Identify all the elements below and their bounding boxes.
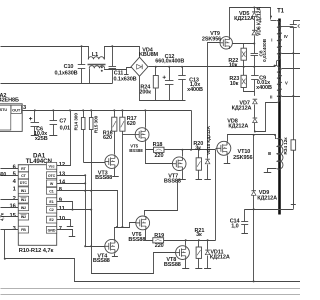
core L1 — [88, 64, 106, 66]
wire VD7-VD8 link — [254, 105, 256, 118]
resistor R24 — [153, 76, 158, 89]
wire C14/VD9 net — [245, 209, 294, 211]
terminal AC2 stub — [124, 74, 129, 76]
svg-text:II: II — [270, 94, 272, 99]
wire VT10 gate column — [215, 150, 217, 241]
node R15 rail tap — [90, 109, 92, 111]
svg-text:E1: E1 — [49, 200, 53, 204]
pin box E1 pin 9 (right) — [46, 198, 56, 205]
ground pin 7 — [69, 236, 76, 238]
wire winding III top lead — [276, 135, 277, 139]
wire C15 top to edge — [294, 20, 301, 22]
svg-text:4,7к: 4,7к — [0, 212, 4, 221]
node VT8 drain tap — [185, 239, 187, 241]
capacitor C15 (output) — [293, 20, 295, 24]
wire +9V rail — [23, 110, 192, 112]
svg-text:660,0х400В: 660,0х400В — [155, 59, 184, 65]
node C11 top tap — [111, 45, 113, 47]
wire VT4 gate net — [86, 246, 105, 248]
ground C7 — [49, 135, 57, 137]
wire pin 3 net down — [4, 230, 6, 259]
wire R14 top lead — [83, 111, 85, 118]
pin box DTC pin 4 (left) — [18, 179, 28, 186]
junction bar C12 minus — [166, 100, 172, 102]
svg-text:R18: R18 — [153, 142, 163, 148]
svg-text:16: 16 — [10, 204, 17, 210]
wire R22 bottom lead — [243, 61, 245, 67]
wire R16 top lead — [114, 111, 116, 118]
wire pin 13 OTC net — [57, 175, 86, 177]
wire pin 7 GND stub — [57, 230, 73, 237]
wire VT6 drain to VT7 source — [145, 180, 178, 216]
svg-text:DTC: DTC — [20, 181, 28, 185]
svg-text:14: 14 — [59, 180, 66, 186]
svg-text:GND: GND — [48, 228, 56, 232]
wire VD8 to winding II bottom — [255, 103, 278, 132]
svg-text:IN1: IN1 — [21, 189, 26, 193]
svg-text:15: 15 — [10, 213, 17, 219]
svg-text:C1: C1 — [49, 189, 53, 193]
wire VD9 branch down — [253, 135, 255, 191]
transistor VT5 — [135, 128, 149, 142]
transistor VT4 — [105, 239, 119, 253]
svg-text:R10-R12 4,7к: R10-R12 4,7к — [19, 248, 54, 254]
capacitor C14 — [244, 209, 246, 221]
junction bar C13 minus — [179, 100, 185, 102]
ground VT3 source — [112, 176, 119, 178]
wire VD5-VD6 link — [254, 17, 256, 31]
wire VD11 bottom lead — [207, 256, 209, 269]
transistor VT3 — [105, 155, 119, 169]
node winding I top — [270, 16, 272, 18]
ground VT10 source — [224, 163, 231, 165]
node C10 top tap — [81, 45, 83, 47]
wire R20 bottom lead — [198, 171, 200, 180]
node VT5 drain rail tap — [144, 109, 146, 111]
svg-text:C7: C7 — [59, 119, 66, 125]
ground R20 — [196, 179, 203, 181]
svg-text:13: 13 — [59, 171, 66, 177]
node secondary return IV — [292, 52, 294, 54]
wire VT10 source — [227, 156, 229, 164]
wire VT3 source — [114, 169, 116, 177]
svg-text:КД212А: КД212А — [210, 254, 230, 260]
regulator DA2 input pin box — [0, 105, 11, 130]
pin box IN2 pin 15 (left) — [18, 213, 28, 220]
svg-text:C2: C2 — [49, 208, 53, 212]
wire R15 bottom lead to VT4 gate net — [91, 130, 93, 247]
wire R17 bottom lead / VT6 gate net — [122, 132, 124, 228]
pin box RT pin 6 (left) — [18, 165, 28, 172]
wire R21 top lead — [198, 241, 200, 248]
pin box C1 pin 8 (right) — [46, 187, 56, 194]
resistor R14 — [81, 118, 85, 130]
svg-text:КД212А: КД212А — [234, 16, 254, 22]
capacitor C11 — [112, 46, 114, 66]
ground pin 10 — [67, 226, 74, 228]
wire R23 bottom lead — [244, 88, 255, 92]
wire bridge AC2 stub down — [126, 70, 128, 75]
node R16 rail tap — [113, 109, 115, 111]
wire bus stub to winding junction — [275, 61, 277, 66]
resistor R23 — [241, 75, 246, 87]
node R22 bus tap — [243, 66, 245, 68]
node pin9 join — [72, 209, 74, 211]
svg-text:Vcc: Vcc — [48, 164, 54, 168]
svg-text:2SK956: 2SK956 — [233, 155, 252, 161]
winding V of T1 — [279, 69, 282, 96]
wire R10-R12 feedback row — [5, 259, 301, 282]
node VD8 junction — [254, 131, 256, 133]
wire R23 top lead — [243, 67, 245, 76]
svg-text:2: 2 — [13, 196, 16, 202]
frame line 2 — [1, 294, 301, 296]
pin box W pin 14 (right) — [46, 180, 56, 187]
svg-text:х400В: х400В — [256, 85, 272, 91]
frame line 1 — [1, 288, 301, 290]
wire R19 to VT10 gate net — [164, 240, 216, 242]
wire VT5 drain to rail — [145, 111, 147, 128]
regulator DA2 body — [0, 104, 22, 132]
wire pin 15 IN2 to edge — [1, 216, 19, 218]
diode VD8 — [253, 119, 258, 123]
capacitor C13 — [182, 67, 184, 76]
wire rail drop to gate node — [191, 111, 193, 150]
svg-text:R34 12к: R34 12к — [283, 137, 289, 155]
node VT6 gate column join — [121, 226, 123, 228]
ground C14 — [241, 233, 248, 235]
wire pin 11 C2 net — [57, 209, 92, 211]
svg-text:КД212А: КД212А — [232, 105, 252, 111]
node R15 crossing — [90, 190, 92, 192]
resistor R17 — [120, 117, 125, 131]
wire winding V bottom output — [282, 96, 301, 98]
wire winding I top lead — [271, 20, 277, 22]
node bus to primary — [274, 65, 276, 67]
node L1 bottom-right junction — [101, 70, 103, 72]
svg-text:0,01х400В: 0,01х400В — [262, 38, 268, 62]
IC DA1 body — [18, 165, 56, 246]
node C8 bus tap — [253, 66, 255, 68]
svg-text:КД212А: КД212А — [228, 123, 248, 129]
node C7 rail tap — [52, 109, 54, 111]
resistor R18 — [154, 147, 165, 152]
wire VT4 source — [114, 254, 116, 257]
pin box Vcc pin 12 (right) — [46, 162, 56, 169]
wire VT5 gate tap — [123, 134, 136, 136]
wire R22 top lead — [243, 44, 245, 49]
svg-text:BSS88: BSS88 — [164, 262, 181, 268]
svg-text:BSS88: BSS88 — [95, 175, 112, 181]
svg-text:х25В: х25В — [35, 136, 48, 142]
svg-text:х400В: х400В — [187, 87, 203, 93]
pin box IN2 pin 16 (left) — [18, 204, 28, 211]
transistor VT8 — [176, 246, 190, 260]
node secondary return V — [292, 95, 294, 97]
wire L1 bottom right to bridge AC2 — [105, 68, 132, 70]
svg-text:VD6 КД212А: VD6 КД212А — [256, 7, 262, 36]
pin box IN1 pin 2 (left) — [18, 196, 28, 203]
wire pins 13-14-8 vertical — [85, 176, 87, 247]
svg-text:R19: R19 — [154, 233, 164, 239]
wire winding IV top to C15 — [282, 26, 294, 28]
svg-text:КД212А: КД212А — [257, 195, 277, 201]
node top rail VD5 tap — [253, 7, 255, 9]
capacitor C7 — [53, 110, 55, 120]
svg-text:T1: T1 — [277, 9, 285, 15]
node C12 bus tap — [168, 66, 170, 68]
wire VT9 drain to top rail — [230, 8, 271, 37]
wire R34 bottom lead — [293, 151, 295, 205]
svg-text:11: 11 — [59, 206, 66, 212]
wire VT7 source — [182, 171, 184, 180]
wire R24 top lead — [155, 67, 157, 76]
svg-text:220: 220 — [155, 153, 164, 159]
wire L1 bottom left lead — [89, 69, 91, 84]
wire AC line 2 (bottom) from left edge — [1, 83, 113, 85]
svg-text:10к: 10к — [230, 81, 239, 87]
wire R24 bottom lead — [155, 89, 157, 101]
wire secondary common drop — [253, 210, 255, 282]
svg-text:STU: STU — [0, 108, 7, 112]
node feedback join — [4, 258, 6, 260]
node L1 top-right junction — [101, 66, 103, 68]
wire R18 to VT9 gate node — [165, 149, 216, 151]
wire pin 11 loop to VT8 gate — [92, 210, 176, 274]
transistor VT6 — [136, 216, 150, 230]
svg-text:C10: C10 — [64, 64, 74, 70]
transistor VT10 — [217, 141, 231, 155]
inductor L1 bottom winding — [89, 66, 104, 69]
svg-text:FB: FB — [21, 228, 26, 232]
node R17 rail tap — [121, 109, 123, 111]
wire VD10 bottom lead — [207, 165, 209, 180]
wire R14 bottom lead to VT3 gate net — [83, 130, 85, 163]
wire DC bus +310V — [149, 66, 276, 68]
ground winding III — [264, 172, 272, 174]
ground VT4 source — [112, 256, 118, 258]
node common rail join — [253, 280, 255, 282]
pin box IN1 pin 1 (left) — [18, 187, 28, 194]
svg-text:VD10 КД212А: VD10 КД212А — [206, 125, 211, 155]
svg-text:BSS88: BSS88 — [93, 258, 110, 264]
wire VT8 source — [185, 260, 187, 269]
regulator DA2 OUT pin box — [11, 105, 21, 113]
wire VD5 top lead — [254, 8, 256, 12]
junction bar R24 minus — [153, 100, 159, 102]
svg-text:BSS88: BSS88 — [129, 148, 143, 153]
pin box E2 pin 10 (right) — [46, 216, 56, 223]
node R21 tap — [198, 239, 200, 241]
node pin8 crossing A — [84, 190, 86, 192]
diode VD9 — [251, 191, 256, 195]
svg-text:BSS88: BSS88 — [128, 237, 145, 243]
svg-text:10к: 10к — [229, 62, 238, 68]
wire AC line 1 (top) from left edge — [1, 47, 89, 60]
wire pin 3 FB to edge — [1, 229, 19, 231]
svg-text:R15 300: R15 300 — [94, 115, 100, 133]
resistor R19 — [153, 238, 164, 243]
resistor R22 — [241, 48, 246, 60]
svg-text:2SK956: 2SK956 — [202, 37, 221, 43]
svg-text:0,01: 0,01 — [60, 125, 70, 131]
winding II of T1 — [277, 66, 280, 102]
wire pin 5 CT to edge — [1, 175, 19, 177]
svg-text:0.1х630В: 0.1х630В — [113, 76, 136, 82]
wire VT8 drain — [185, 241, 187, 246]
svg-text:3к: 3к — [195, 145, 201, 151]
node VD9 top tap — [253, 134, 255, 136]
node VD11 tap — [207, 239, 209, 241]
ground C6 — [31, 135, 39, 137]
svg-text:IV: IV — [284, 34, 288, 39]
svg-text:7: 7 — [59, 226, 62, 232]
node VD10 tap — [207, 149, 209, 151]
ground VD11 — [204, 268, 211, 270]
wire winding IV bottom output — [282, 53, 301, 55]
wire VD11 top lead — [207, 241, 209, 250]
wire primary minus bus — [140, 77, 186, 101]
svg-text:IN2: IN2 — [21, 215, 26, 219]
wire VT6 gate jog — [123, 223, 136, 228]
svg-text:R14 300: R14 300 — [74, 113, 80, 131]
svg-text:КР142ЕН8Б: КР142ЕН8Б — [0, 98, 19, 104]
svg-text:620: 620 — [103, 135, 112, 141]
svg-text:III: III — [268, 151, 271, 156]
resistor R20 — [196, 158, 201, 170]
node VT4 gate R15 join — [90, 245, 92, 247]
node pin12 rail tap — [69, 109, 71, 111]
diode VD10 — [205, 160, 210, 164]
capacitor C12 (electrolytic) — [169, 67, 171, 81]
node pin14 join — [84, 182, 86, 184]
wire VD9 to C14 wire — [253, 196, 255, 210]
svg-text:620: 620 — [127, 121, 136, 127]
overline IN2 — [21, 214, 27, 216]
wire VT5 source to R18 — [146, 142, 154, 150]
wire VD10 top lead — [207, 150, 209, 159]
svg-text:300: 300 — [0, 172, 6, 178]
wire R15 top lead — [91, 111, 93, 118]
ground VD10 — [204, 179, 211, 181]
svg-text:V: V — [285, 80, 288, 85]
svg-text:I: I — [271, 38, 272, 43]
wire pin 2 to edge — [1, 199, 19, 201]
wire pin 12 Vcc net — [57, 111, 71, 166]
wire pin 9 E1 net — [57, 202, 73, 210]
resistor R15 — [89, 118, 93, 130]
node R20 tap — [198, 149, 200, 151]
svg-text:OTC: OTC — [48, 174, 56, 178]
wire R20 top lead — [198, 150, 200, 158]
node VT4 drain join — [116, 226, 118, 228]
pin box CT pin 5 (left) — [18, 172, 28, 179]
node VD9 bottom join — [253, 208, 255, 210]
node rail drop tap — [190, 149, 192, 151]
wire VT7 gate net — [146, 150, 173, 164]
ground R21 — [195, 268, 202, 270]
pin box FB pin 3 (left) — [18, 226, 28, 233]
svg-text:OUT: OUT — [12, 107, 21, 112]
transistor VT7 — [172, 157, 186, 171]
diode VD7 — [253, 100, 258, 104]
resistor R16 — [112, 117, 117, 131]
bridge rectifier VD4 — [131, 57, 148, 76]
overline IN1 — [21, 197, 27, 199]
svg-text:IN1: IN1 — [21, 198, 26, 202]
pin box GND pin 7 (right) — [46, 226, 56, 233]
winding I of T1 — [277, 21, 280, 61]
wire R17 top lead — [122, 111, 124, 118]
wire L1 top right to bridge top — [105, 47, 140, 60]
capacitor C9 — [254, 67, 256, 76]
node winding III top — [274, 134, 276, 136]
node VT4 gate riser join — [84, 245, 86, 247]
svg-text:200к: 200к — [139, 90, 151, 96]
wire VT3 gate from R14 — [84, 162, 106, 164]
svg-text:220: 220 — [155, 243, 164, 249]
svg-text:KBU8M: KBU8M — [139, 52, 159, 58]
diode VD6 — [252, 31, 257, 35]
wire R16 bottom lead to VT3 drain — [114, 132, 116, 155]
wire winding III bottom to ground — [268, 169, 277, 173]
transistor VT9 — [220, 37, 232, 49]
svg-text:10: 10 — [59, 216, 65, 222]
node C6 rail tap — [34, 109, 36, 111]
node clamp VD6/C8 — [253, 43, 255, 45]
svg-text:E2: E2 — [49, 218, 53, 222]
svg-text:0,1х630В: 0,1х630В — [54, 71, 77, 77]
diode VD11 — [205, 251, 210, 255]
svg-text:L1: L1 — [92, 52, 98, 58]
node pin13 join — [84, 174, 86, 176]
wire pin 10 E2 stub — [57, 220, 71, 227]
wire VT9 source to clamp node — [233, 43, 255, 45]
transformer T1 core — [278, 19, 281, 215]
wire pin 8 C1 net — [57, 191, 118, 228]
wire VT7 drain — [182, 150, 184, 157]
wire pin 14 W net — [57, 183, 86, 185]
winding III of T1 — [277, 138, 283, 169]
wire VT6 source to R19 — [146, 230, 153, 241]
capacitor C6 (electrolytic) — [34, 110, 36, 122]
wire winding V top output — [282, 68, 301, 70]
svg-text:12: 12 — [59, 162, 65, 168]
svg-text:1,0: 1,0 — [231, 223, 238, 229]
pin box C2 pin 11 (right) — [46, 206, 56, 213]
svg-text:3к: 3к — [196, 232, 202, 238]
node R24 bus tap — [155, 66, 157, 68]
wire VT9 gate lead — [208, 43, 221, 151]
wire pin 16 IN2 to edge — [1, 207, 19, 209]
wire VT10 drain to winding III — [228, 135, 276, 142]
pin box OTC pin 13 (right) — [46, 172, 56, 179]
winding IV of T1 — [279, 27, 282, 54]
ground VT7 source — [177, 179, 186, 181]
wire VT10 gate stub — [216, 148, 217, 150]
node C13 bus tap — [181, 66, 183, 68]
ground VT8 source — [182, 268, 189, 270]
wire VT4 drain net — [115, 228, 123, 240]
diode VD5 — [252, 13, 257, 17]
wire R21 bottom lead — [198, 259, 200, 269]
svg-text:IN2: IN2 — [21, 206, 26, 210]
node VT7 drain tap — [181, 149, 183, 151]
node pin11 corner — [90, 209, 92, 211]
capacitor C8 — [254, 44, 256, 54]
svg-text:C1: C1 — [298, 24, 300, 30]
wire VD6 to node — [254, 36, 256, 44]
